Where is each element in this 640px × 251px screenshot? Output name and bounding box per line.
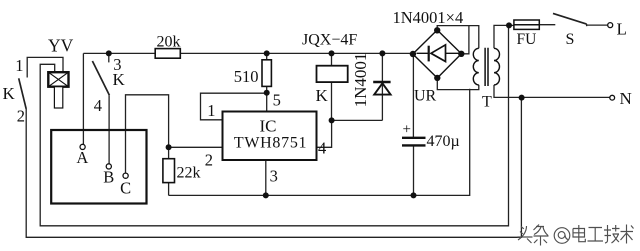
terminal L circle	[608, 23, 613, 28]
wire diode lead	[381, 53, 383, 120]
wire 510 bottom lead to IC pin 5	[266, 86, 268, 111]
svg-text:IC: IC	[260, 116, 277, 135]
svg-text:YV: YV	[48, 36, 74, 56]
wire inner bottom loop: fuse node to YV coil left	[40, 25, 508, 225]
svg-text:5: 5	[273, 91, 281, 110]
svg-text:B: B	[103, 168, 114, 187]
switch K 3-4 blade	[92, 61, 109, 95]
transformer T core	[485, 48, 488, 86]
svg-text:3: 3	[270, 166, 278, 185]
node rail/K34	[106, 50, 112, 56]
resistor R1 20k	[155, 49, 180, 59]
svg-text:4: 4	[94, 96, 102, 115]
wire pin 4	[317, 120, 332, 147]
node gnd/pin3	[263, 192, 269, 198]
svg-text:1: 1	[207, 101, 215, 120]
solenoid valve YV stem	[54, 87, 62, 108]
wire 22k top lead	[168, 147, 170, 158]
svg-text:20k: 20k	[157, 34, 181, 51]
diode VD 1N4001	[373, 82, 390, 95]
switch S blade	[553, 13, 587, 24]
svg-text:N: N	[620, 89, 632, 108]
wire bridge top vertex hook to secondary top	[437, 26, 479, 49]
svg-text:T: T	[482, 94, 492, 111]
electrode B terminal	[106, 164, 111, 169]
wire bridge right vertex riser	[461, 26, 469, 54]
switch K 1-2 blade	[19, 78, 27, 109]
wire fuse right lead	[539, 24, 555, 26]
wire top rail right segment	[180, 52, 412, 54]
svg-text:JQX−4F: JQX−4F	[302, 32, 357, 49]
wire primary top hook to fuse node	[494, 25, 509, 48]
wire relay coil bottom lead	[331, 82, 333, 120]
relay coil K box	[317, 66, 348, 82]
svg-text:UR: UR	[414, 88, 437, 105]
svg-text:1N4001×4: 1N4001×4	[393, 8, 464, 27]
wire 510 top lead	[266, 53, 268, 59]
resistor R3 22k	[163, 159, 175, 183]
electrode A terminal	[80, 144, 85, 149]
wire ground rail	[169, 89, 470, 196]
svg-text:L: L	[617, 20, 627, 39]
node relay/diode/pin4	[329, 117, 335, 123]
node gnd/cap	[411, 192, 417, 198]
fuse FU	[514, 20, 539, 29]
wire S to terminal L	[587, 24, 608, 26]
capacitor C1 470u plates	[402, 138, 426, 146]
wire fuse left lead	[509, 24, 514, 26]
op-amp IC TWH8751 box	[223, 112, 317, 161]
node pin2/22k	[166, 144, 172, 150]
svg-text:4: 4	[318, 138, 326, 157]
wire relay coil top lead	[331, 53, 333, 65]
svg-text:22k: 22k	[177, 165, 201, 182]
svg-text:+: +	[403, 122, 411, 138]
svg-text:K: K	[113, 70, 126, 89]
svg-text:1N4001: 1N4001	[351, 53, 370, 108]
electrode C terminal	[123, 173, 128, 178]
wire pin 1 hook	[201, 93, 267, 120]
watermark outlined CJK strokes	[518, 225, 634, 246]
node N line/loop	[519, 95, 525, 101]
terminal N circle	[610, 95, 615, 100]
wire pin 2	[169, 146, 223, 148]
node bridge bottom vertex	[434, 75, 440, 81]
node bridge left vertex	[410, 51, 416, 57]
wire outer bottom loop: contact 2 to N node	[26, 98, 521, 238]
svg-text:2: 2	[205, 150, 213, 169]
transformer T primary winding	[494, 48, 500, 85]
wire YV coil right hook to contact 1	[27, 57, 63, 77]
svg-text:K: K	[316, 86, 329, 105]
probe tank box A B C	[51, 130, 146, 204]
node rail/diode	[379, 50, 385, 56]
node junction dots	[106, 22, 525, 198]
wire 22k bottom lead	[168, 183, 170, 196]
wire bridge bottom vertex hook to secondary bottom	[437, 78, 479, 90]
solenoid valve YV coil box	[48, 72, 68, 108]
svg-text:1: 1	[15, 56, 23, 75]
svg-text:510: 510	[234, 67, 259, 86]
node rail/relay	[329, 50, 335, 56]
svg-text:K: K	[3, 84, 16, 103]
wire contact 4 to electrode B	[108, 95, 110, 164]
svg-text:470µ: 470µ	[427, 133, 460, 150]
wire N line from primary bottom	[494, 85, 610, 98]
node fuse/primary/loop	[506, 22, 512, 28]
node bridge right vertex	[458, 51, 464, 57]
resistor R2 510	[262, 60, 271, 87]
wire electrode C hook to pin2 node	[126, 95, 169, 173]
node bridge top vertex	[434, 27, 440, 33]
node rail/510	[264, 50, 270, 56]
bridge rectifier UR inner diode	[417, 45, 460, 62]
svg-text:S: S	[566, 31, 575, 48]
wire drop to electrode A	[82, 53, 84, 144]
bridge rectifier UR diamond	[413, 30, 462, 78]
wire capacitor top lead	[412, 54, 414, 137]
svg-text:FU: FU	[517, 31, 537, 48]
svg-text:C: C	[120, 178, 131, 197]
wire S pivot stub	[586, 24, 588, 26]
node pin5	[264, 90, 270, 96]
svg-text:2: 2	[17, 107, 25, 126]
wire capacitor bottom lead	[413, 146, 415, 196]
wire contact 3 stub	[108, 55, 110, 62]
wire relay-diode bottom link	[332, 119, 383, 121]
svg-text:A: A	[76, 148, 88, 167]
wire pin 3	[265, 160, 267, 195]
svg-text:TWH8751: TWH8751	[234, 135, 307, 152]
transformer T secondary winding	[473, 48, 479, 85]
wire top rail left segment	[83, 52, 155, 54]
